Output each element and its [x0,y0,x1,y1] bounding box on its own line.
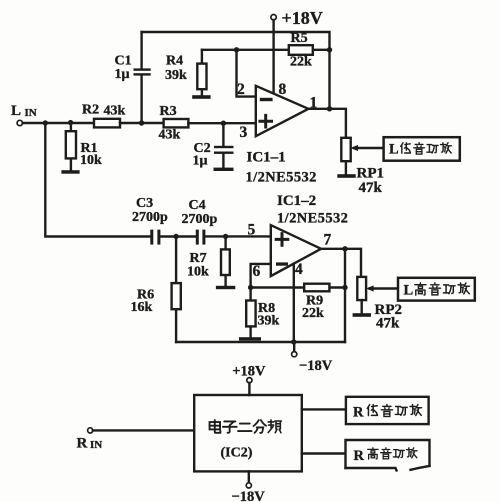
svg-text:22k: 22k [290,55,312,70]
resistor R1 10k [70,123,72,170]
ground for R4 [192,95,210,99]
svg-text:IN: IN [25,107,37,119]
wire wiper arrow RP1 [354,147,384,149]
wire output pin1 to RP1 [308,109,346,138]
svg-text:R: R [354,448,365,464]
svg-text:39k: 39k [165,68,187,83]
wire input to R2 [23,122,94,124]
node R5 right junction [327,47,332,52]
wire IC2 to R treble box [302,452,346,454]
svg-text:IN: IN [90,439,102,451]
svg-text:8: 8 [279,81,287,98]
resistor R5 22k [289,45,313,55]
wire C1 top feedback line [142,32,330,50]
svg-text:39k: 39k [258,313,280,328]
svg-text:2700p: 2700p [132,210,168,225]
node C junction (R2/R3/C1) [139,120,144,125]
wire feedback vertical 2 [344,249,346,342]
svg-text:1/2NE5532: 1/2NE5532 [277,210,348,226]
wire R3 to pin 3 [188,122,255,124]
wire IC2 to R bass box [302,408,346,410]
box R bass amplifier [346,397,429,424]
svg-text:(IC2): (IC2) [221,445,253,460]
wire feedback vertical to output [328,50,330,109]
svg-text:43k: 43k [159,128,181,143]
op-amp U1 IC1-1 [256,86,309,136]
wire R4 top to R5 line [202,49,330,51]
svg-text:2700p: 2700p [182,212,218,227]
+18V supply terminal [271,15,276,20]
svg-text:6: 6 [253,263,261,280]
wire C3 to C4 [160,235,195,237]
svg-text:R: R [77,435,88,451]
box L bass amplifier [384,137,460,161]
svg-text:4: 4 [295,261,303,278]
node R4/R5/pin2 junction [234,47,239,52]
resistor R4 39k [201,50,203,95]
resistor R6 16k [175,237,177,343]
svg-text:2: 2 [237,81,245,98]
wire output pin 7 [321,249,361,277]
svg-text:IC1–1: IC1–1 [247,150,286,166]
svg-text:3: 3 [240,124,248,141]
box L treble amplifier [398,278,475,301]
svg-text:1μ: 1μ [115,67,130,82]
node L IN input terminal [17,120,22,125]
svg-text:C4: C4 [189,198,206,213]
node rail/-18V junction [291,339,296,344]
svg-text:22k: 22k [302,306,324,321]
node pin3/C2 junction [221,121,226,126]
capacitor C4 2700p [196,230,199,245]
ground for R7 [216,286,235,289]
svg-text:−18V: −18V [299,358,333,374]
wire R2 to R3 [120,122,164,124]
op-amp U2 IC1-2 [271,225,321,276]
box IC2 electronic crossover [194,395,302,471]
resistor R2 43k [94,119,120,128]
ground for C2 [214,168,234,171]
svg-text:C3: C3 [136,196,153,211]
wire C4 to pin 5 [205,235,270,237]
svg-text:L: L [389,142,399,158]
node D junction (C3/C4/R6) [173,234,178,239]
ground for RP2 [353,313,371,317]
ground for RP1 [337,174,355,178]
svg-text:47k: 47k [359,180,383,196]
capacitor C1 1u [140,32,142,123]
svg-text:10k: 10k [187,265,209,280]
wire wiper arrow RP2 [370,287,399,289]
svg-text:R: R [353,405,364,421]
potentiometer RP1 47k [341,138,350,161]
svg-text:R5: R5 [291,31,308,46]
node output2/feedback junction [342,246,347,251]
potentiometer RP2 47k [357,277,366,300]
wire pin 6 [251,264,271,288]
box R treble amplifier (broken bottom edge artifact) [346,440,430,468]
node R9 right junction [342,285,347,290]
wire R IN to IC2 [93,429,194,431]
resistor R7 10k [224,236,226,285]
node B junction [68,120,73,125]
svg-text:−18V: −18V [232,489,266,502]
svg-text:L: L [11,103,21,119]
capacitor C3 2700p [150,230,153,245]
-18V supply terminal [293,342,295,352]
node A junction [43,120,48,125]
svg-text:43k: 43k [104,103,126,118]
wire node A down to high-pass input [45,123,150,237]
svg-text:16k: 16k [131,300,153,315]
resistor R8 39k [249,288,251,338]
svg-text:47k: 47k [376,316,400,332]
wire bottom feedback rail [176,341,345,343]
-18V supply terminal for IC2 [248,471,250,482]
svg-text:R2: R2 [82,103,99,118]
node pin6/R8/R9 junction [248,285,253,290]
wire pin 2 [237,50,256,97]
node R7 junction [223,234,228,239]
wire R9 rail [251,286,345,288]
ground for R1 [61,170,79,174]
svg-text:R4: R4 [166,54,183,69]
svg-text:1μ: 1μ [193,153,208,168]
resistor R9 22k [304,284,329,292]
svg-text:7: 7 [324,232,332,249]
resistor R3 43k [164,119,189,127]
svg-text:R3: R3 [160,104,177,119]
svg-text:1/2NE5532: 1/2NE5532 [246,170,317,186]
node output/feedback junction [327,106,332,111]
wire pin 4 to -18V rail [293,264,295,342]
ground for R8 [239,337,261,340]
svg-text:+18V: +18V [282,8,323,28]
svg-text:IC1–2: IC1–2 [277,193,316,209]
node R IN input terminal [88,428,93,433]
svg-text:L: L [404,282,414,298]
svg-text:10k: 10k [80,153,102,168]
capacitor C2 1u [222,123,224,167]
svg-text:5: 5 [248,221,256,238]
